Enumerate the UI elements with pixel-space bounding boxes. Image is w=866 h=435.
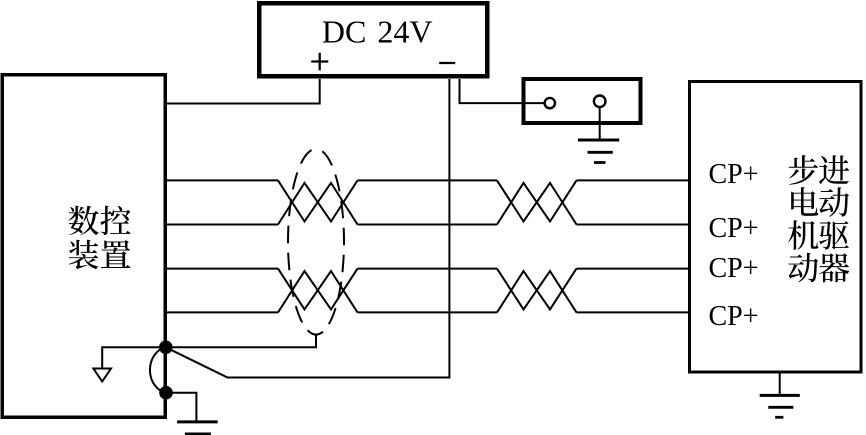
svg-text:CP+: CP+ — [709, 159, 759, 190]
svg-text:CP+: CP+ — [709, 301, 759, 332]
svg-text:CP+: CP+ — [709, 253, 759, 284]
svg-text:DC 24V: DC 24V — [322, 13, 433, 49]
svg-text:CP+: CP+ — [709, 213, 759, 244]
